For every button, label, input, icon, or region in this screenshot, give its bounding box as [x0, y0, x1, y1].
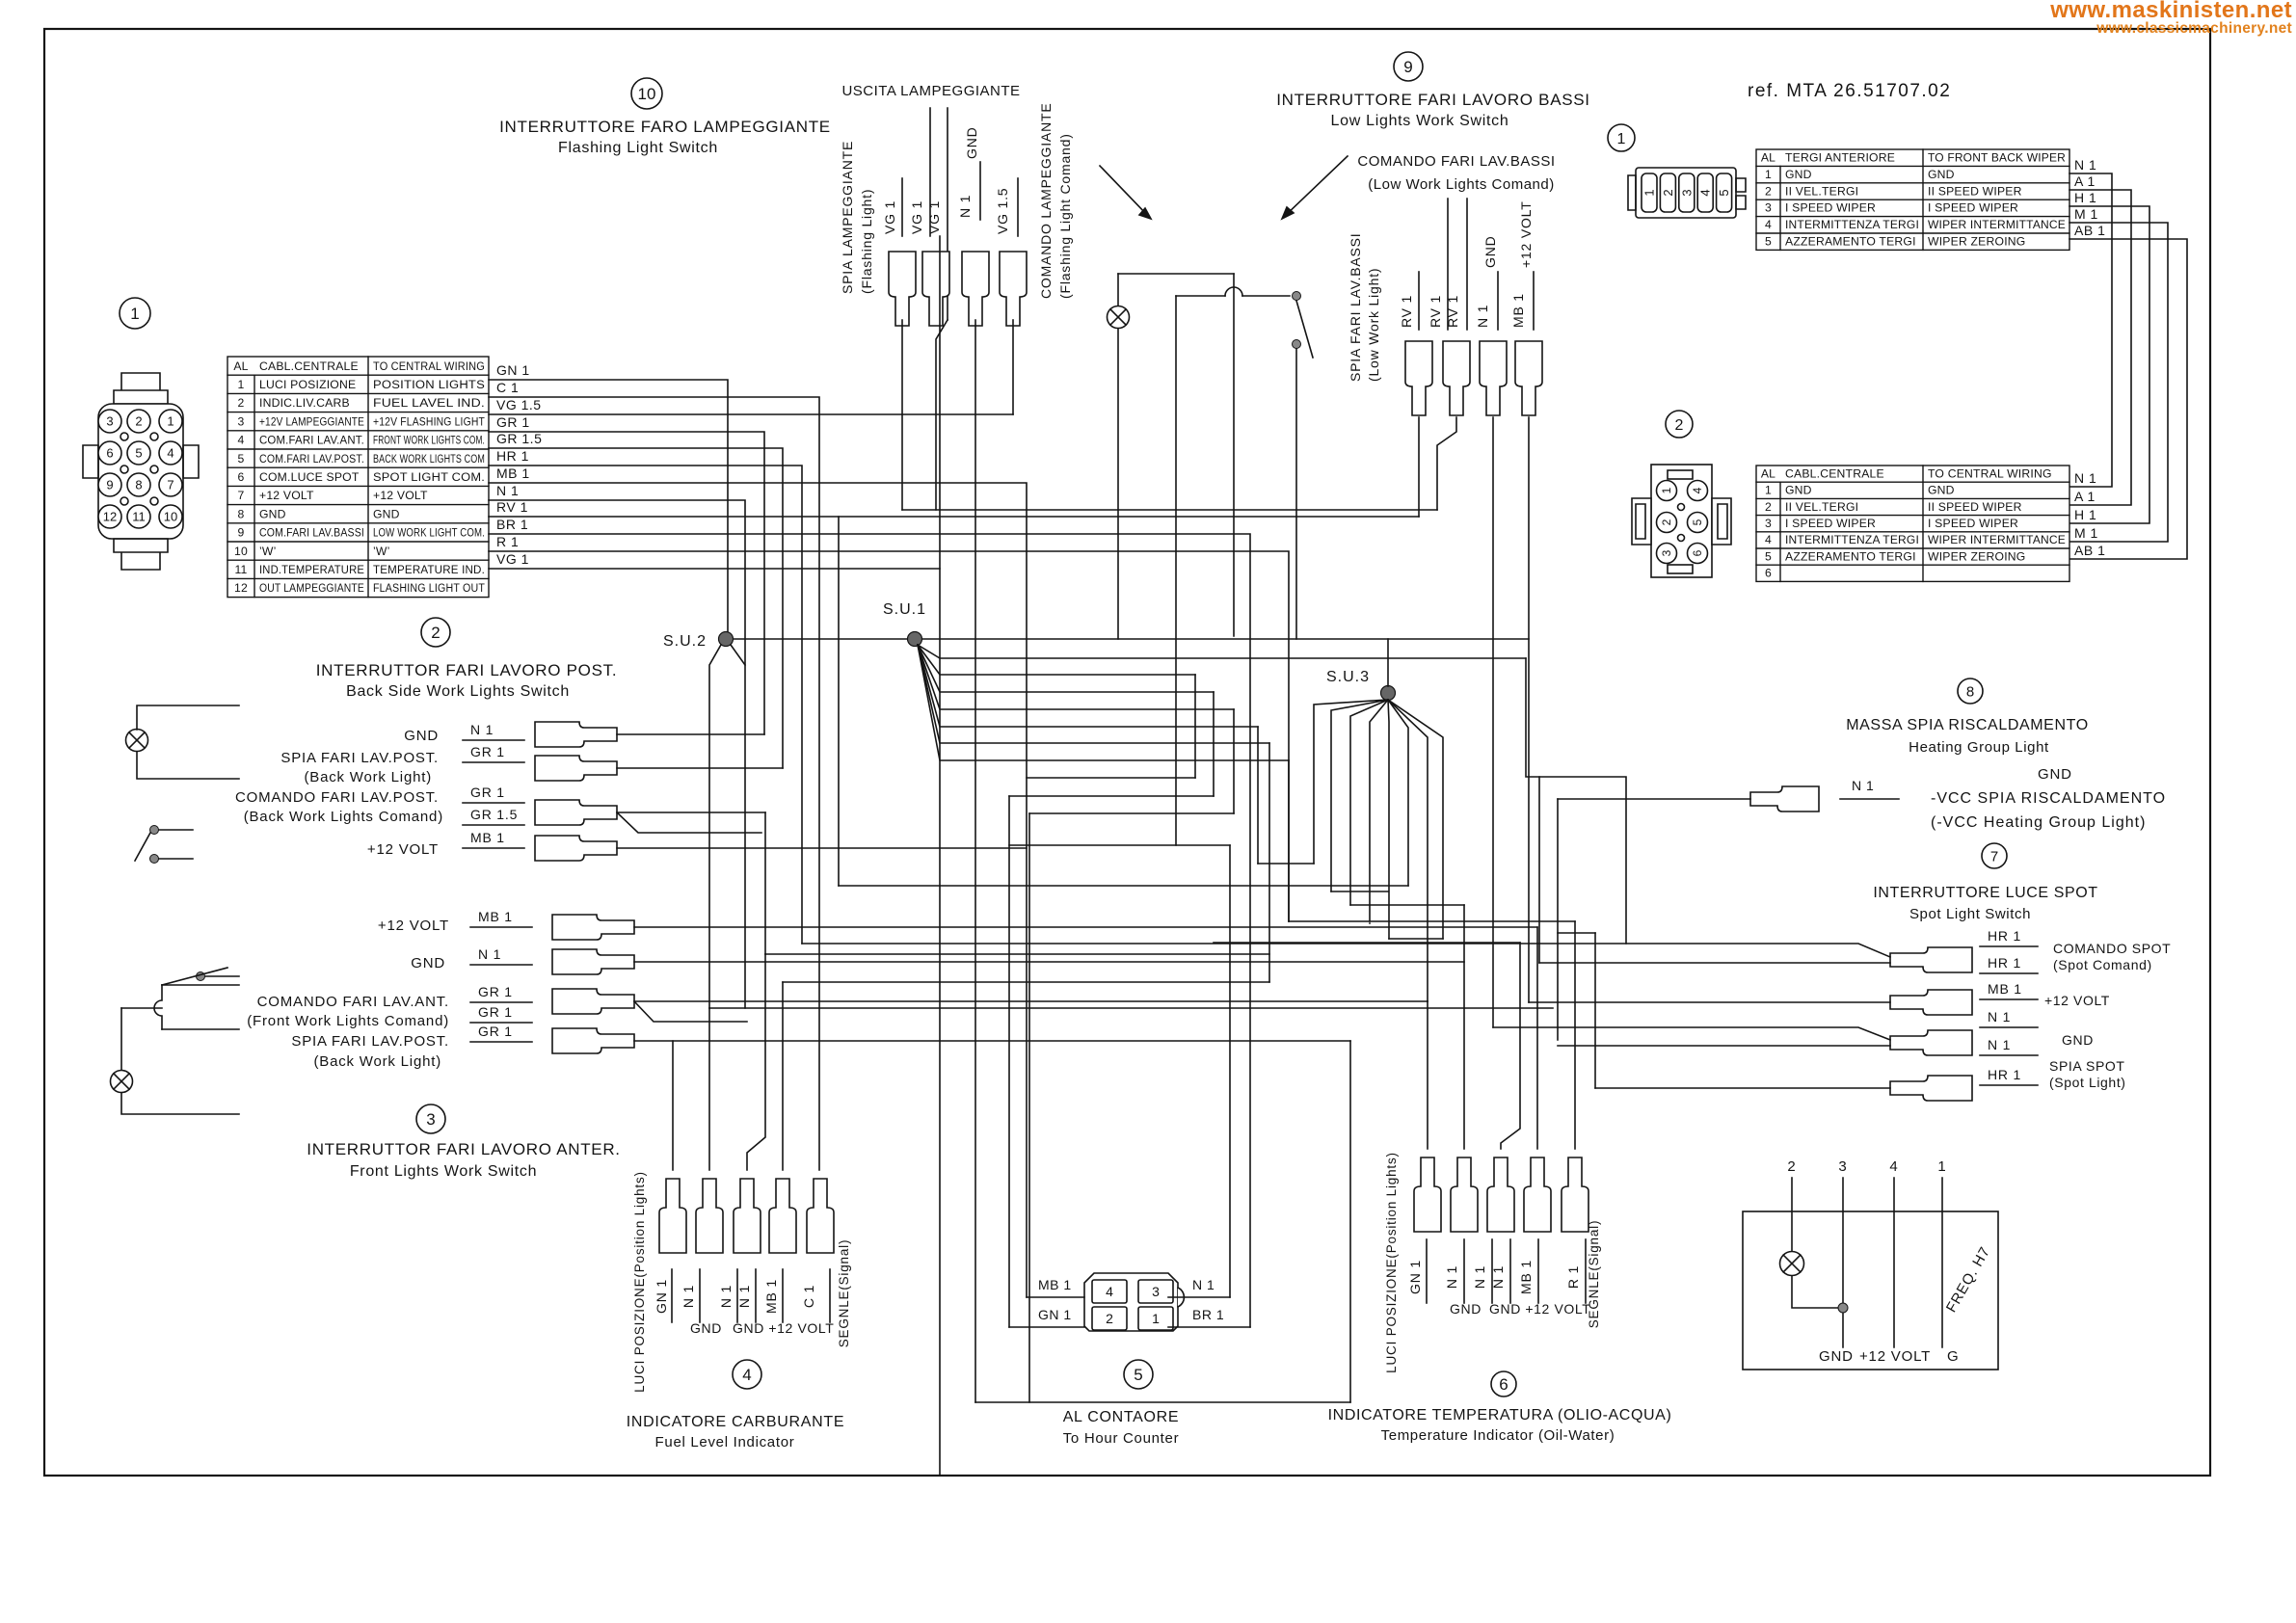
svg-text:GR 1: GR 1: [478, 1024, 513, 1039]
wire S.U.1 branch 5: [918, 645, 1258, 727]
wire lamp2 bottom: [137, 752, 239, 779]
terminal lug vg1: [922, 252, 949, 326]
underline fuel label: [755, 1269, 757, 1322]
svg-text:VG 1: VG 1: [926, 200, 942, 234]
contact lower flashing switch: [1293, 340, 1301, 349]
lug comando g3: [552, 989, 634, 1014]
svg-text:4: 4: [742, 1366, 751, 1384]
svg-text:9: 9: [238, 526, 245, 540]
svg-text:VG 1: VG 1: [909, 200, 924, 234]
svg-text:GND: GND: [1819, 1348, 1854, 1365]
svg-text:1: 1: [1765, 484, 1772, 497]
wire lamp branch down: [1233, 274, 1235, 636]
wire GN1 into counter: [1009, 1326, 1084, 1328]
svg-text:COM.LUCE SPOT: COM.LUCE SPOT: [259, 470, 360, 484]
svg-text:N 1: N 1: [1475, 305, 1490, 328]
svg-text:6: 6: [238, 470, 245, 484]
svg-text:INTERRUTTOR FARI LAVORO POST.: INTERRUTTOR FARI LAVORO POST.: [316, 661, 618, 679]
svg-text:(-VCC Heating Group Light): (-VCC Heating Group Light): [1931, 814, 2146, 831]
svg-text:HR 1: HR 1: [1988, 1067, 2021, 1082]
lug spia spot: [1890, 1076, 1972, 1101]
svg-text:5: 5: [1765, 549, 1772, 563]
lever back switch: [135, 833, 150, 861]
svg-text:4: 4: [238, 434, 245, 447]
terminal lug n1 gnd low: [1480, 341, 1507, 415]
wire 12v low long down: [1528, 417, 1530, 1002]
svg-text:R 1: R 1: [1565, 1265, 1581, 1289]
wire BR1 to hour counter: [489, 534, 1250, 1327]
wire vg15 down: [1012, 320, 1014, 414]
pin 3 connector W2: [1657, 544, 1677, 564]
underline n1: [979, 162, 981, 220]
pin 2 connector W1: [1660, 173, 1675, 212]
badge 2 right: [1666, 411, 1693, 438]
svg-text:1: 1: [1937, 1158, 1946, 1175]
svg-text:7: 7: [1990, 848, 1998, 865]
svg-text:C 1: C 1: [496, 380, 519, 395]
wire y877: [1009, 844, 1230, 846]
svg-text:TO CENTRAL WIRING: TO CENTRAL WIRING: [1928, 466, 2052, 480]
wire S.U.2 branch left: [709, 645, 721, 1008]
wire freq pin1: [1941, 1178, 1943, 1347]
junction S.U.2: [719, 632, 734, 647]
svg-text:www.classicmachinery.net: www.classicmachinery.net: [2096, 20, 2292, 37]
wire MB1 spot: [1529, 1001, 1890, 1003]
wire HR1 upper diag: [802, 944, 1890, 957]
wire GR1.5 to back comando: [489, 448, 783, 768]
underline temp label: [1537, 1239, 1539, 1303]
svg-text:GN 1: GN 1: [654, 1279, 669, 1314]
wire riser x1240: [1194, 675, 1196, 778]
svg-text:1: 1: [1642, 189, 1657, 196]
badge 1 right: [1608, 124, 1635, 151]
svg-text:TERGI ANTERIORE: TERGI ANTERIORE: [1785, 151, 1895, 165]
svg-text:GND: GND: [373, 507, 400, 520]
svg-text:SPIA SPOT: SPIA SPOT: [2049, 1058, 2125, 1074]
lug fuel 5: [807, 1179, 834, 1253]
lug temp 5: [1562, 1157, 1589, 1232]
svg-text:12: 12: [234, 581, 248, 595]
wire fuel3 jog up: [747, 954, 765, 1170]
lug temp 3: [1487, 1157, 1514, 1232]
svg-text:1: 1: [1765, 168, 1772, 181]
wire y974: [1389, 938, 1443, 940]
svg-text:GND: GND: [404, 728, 439, 744]
svg-text:AL: AL: [1761, 151, 1775, 165]
lug spia g3: [552, 1028, 634, 1053]
svg-text:IND.TEMPERATURE: IND.TEMPERATURE: [259, 563, 364, 576]
svg-text:GND: GND: [964, 126, 979, 159]
svg-text:SPIA FARI LAV.BASSI: SPIA FARI LAV.BASSI: [1348, 233, 1363, 383]
svg-text:7: 7: [238, 489, 245, 502]
underline fuel label: [782, 1269, 784, 1322]
wire comando low b: [1466, 199, 1468, 330]
svg-text:4: 4: [1765, 218, 1772, 231]
lug gnd spot: [1890, 1030, 1972, 1055]
svg-text:COMANDO FARI LAV.POST.: COMANDO FARI LAV.POST.: [235, 789, 439, 806]
svg-text:R 1: R 1: [496, 534, 519, 549]
wire fuel4 up: [782, 982, 784, 1170]
switch lever: [1296, 301, 1313, 358]
pin 5 connector W1: [1717, 173, 1732, 212]
svg-text:AB 1: AB 1: [2074, 223, 2105, 238]
svg-text:2: 2: [431, 624, 440, 642]
svg-text:N 1: N 1: [1192, 1277, 1215, 1292]
svg-text:(Low Work Light): (Low Work Light): [1366, 268, 1381, 382]
svg-text:MB 1: MB 1: [1510, 293, 1526, 328]
svg-text:FLASHING LIGHT OUT: FLASHING LIGHT OUT: [373, 581, 485, 595]
pin 12 connector X1: [98, 505, 121, 528]
svg-text:-VCC SPIA RISCALDAMENTO: -VCC SPIA RISCALDAMENTO: [1931, 790, 2166, 807]
underline vg1 a: [901, 178, 903, 236]
wire branch1 staircase: [1526, 658, 1626, 944]
svg-text:8: 8: [1966, 683, 1974, 700]
svg-text:AB 1: AB 1: [2074, 543, 2105, 558]
svg-text:ref. MTA 26.51707.02: ref. MTA 26.51707.02: [1748, 81, 1951, 101]
svg-text:INTERRUTTOR FARI LAVORO ANTER.: INTERRUTTOR FARI LAVORO ANTER.: [307, 1140, 620, 1158]
svg-text:BR 1: BR 1: [496, 517, 528, 532]
svg-text:4: 4: [1765, 533, 1772, 546]
svg-text:1: 1: [130, 305, 139, 323]
svg-text:GND: GND: [1482, 235, 1498, 268]
svg-text:N 1: N 1: [1852, 778, 1874, 793]
pin 11 connector X1: [127, 505, 150, 528]
svg-text:2: 2: [1787, 1158, 1796, 1175]
svg-text:GND: GND: [1450, 1301, 1482, 1317]
svg-text:6: 6: [106, 446, 113, 461]
svg-text:II SPEED WIPER: II SPEED WIPER: [1928, 184, 2022, 198]
wire H 1 loop: [2069, 206, 2149, 523]
svg-text:GND: GND: [690, 1320, 722, 1336]
svg-text:COM.FARI LAV.POST.: COM.FARI LAV.POST.: [259, 452, 364, 466]
svg-text:N 1: N 1: [1472, 1265, 1487, 1289]
svg-text:GN 1: GN 1: [1407, 1260, 1423, 1294]
svg-text:S.U.2: S.U.2: [663, 633, 707, 650]
lug 12v spot: [1890, 990, 1972, 1015]
wire y919: [839, 885, 1408, 887]
badge 9: [1394, 52, 1423, 81]
lamp flashing indicator: [1108, 306, 1130, 329]
lug 12v g3: [552, 915, 634, 940]
connector X1 12-pin body: [114, 373, 168, 404]
underline temp label: [1491, 1239, 1493, 1303]
underline n1 heat: [1840, 798, 1899, 800]
svg-text:LOW WORK LIGHT COM.: LOW WORK LIGHT COM.: [373, 526, 485, 540]
table connector X1 pinout: [227, 357, 489, 598]
svg-text:N 1: N 1: [681, 1285, 696, 1308]
svg-text:INDICATORE CARBURANTE: INDICATORE CARBURANTE: [627, 1414, 845, 1430]
pin 1 connector W1: [1642, 173, 1657, 212]
svg-text:USCITA LAMPEGGIANTE: USCITA LAMPEGGIANTE: [841, 83, 1020, 99]
contact front switch: [197, 972, 205, 981]
svg-text:GR 1: GR 1: [470, 744, 505, 759]
wire lamp down: [1117, 329, 1119, 639]
svg-text:6: 6: [1765, 567, 1772, 580]
svg-text:(Back Work Light): (Back Work Light): [313, 1053, 441, 1070]
svg-text:GN 1: GN 1: [1038, 1307, 1072, 1322]
svg-text:H 1: H 1: [2074, 507, 2096, 522]
pin 3 hour counter: [1138, 1280, 1173, 1303]
svg-text:FRONT WORK LIGHTS COM.: FRONT WORK LIGHTS COM.: [373, 434, 485, 447]
wire y978: [1214, 942, 1520, 944]
wire S.U.2 branch right: [731, 645, 745, 665]
svg-text:2: 2: [1765, 184, 1772, 198]
svg-text:+12V FLASHING LIGHT: +12V FLASHING LIGHT: [373, 414, 485, 428]
wire RV1 branch: [489, 517, 839, 886]
svg-text:(Spot Light): (Spot Light): [2049, 1075, 2126, 1090]
svg-text:GND: GND: [2038, 766, 2072, 783]
wire R1 branch: [489, 551, 1289, 921]
terminal lug n1 gnd: [962, 252, 989, 326]
svg-text:(Spot Comand): (Spot Comand): [2053, 957, 2152, 972]
wire N1 upper diag: [1493, 1027, 1890, 1040]
svg-text:GND +12 VOLT: GND +12 VOLT: [1489, 1301, 1590, 1317]
wire rv bus horizontal: [902, 509, 1437, 511]
wire riser x1280: [1233, 709, 1235, 813]
wire riser x1317: [1268, 743, 1270, 982]
svg-text:+12 VOLT: +12 VOLT: [1518, 200, 1534, 268]
component FREQ H7 box: [1743, 1211, 1998, 1370]
arrow to switch right: [1284, 156, 1348, 217]
wire riser GN1 counter: [1008, 796, 1010, 1327]
wire riser N1 counter: [1229, 845, 1231, 1297]
svg-text:3: 3: [1660, 549, 1673, 556]
svg-text:INTERMITTENZA TERGI: INTERMITTENZA TERGI: [1785, 533, 1919, 546]
wire heating: [1558, 798, 1750, 800]
pin 6 connector W2: [1688, 544, 1708, 564]
wire temp2 up: [1463, 905, 1465, 1149]
svg-text:LUCI POSIZIONE: LUCI POSIZIONE: [259, 378, 356, 391]
svg-text:(Flashing Light): (Flashing Light): [859, 189, 874, 294]
wire A 1 loop: [2069, 190, 2131, 505]
svg-text:+12 VOLT: +12 VOLT: [2044, 993, 2110, 1008]
svg-text:1: 1: [1660, 487, 1673, 493]
wire S.U.1 branch 6: [918, 645, 1269, 743]
svg-text:VG 1: VG 1: [496, 551, 529, 567]
svg-text:N 1: N 1: [736, 1285, 752, 1308]
pin 5 connector W2: [1688, 513, 1708, 533]
svg-text:HR 1: HR 1: [1988, 955, 2021, 971]
svg-text:G: G: [1947, 1348, 1959, 1365]
svg-text:4: 4: [1691, 487, 1704, 493]
svg-text:9: 9: [106, 478, 113, 492]
svg-text:+12V LAMPEGGIANTE: +12V LAMPEGGIANTE: [259, 414, 364, 428]
wire spia lamp down: [901, 320, 903, 510]
svg-text:MB 1: MB 1: [478, 909, 513, 924]
svg-text:VG 1.5: VG 1.5: [995, 188, 1010, 234]
svg-text:I SPEED WIPER: I SPEED WIPER: [1785, 517, 1876, 530]
svg-text:CABL.CENTRALE: CABL.CENTRALE: [259, 359, 359, 373]
wire HR1 lower: [1539, 962, 1890, 964]
svg-text:II VEL.TERGI: II VEL.TERGI: [1785, 184, 1858, 198]
svg-text:COMANDO LAMPEGGIANTE: COMANDO LAMPEGGIANTE: [1038, 103, 1054, 299]
svg-text:N 1: N 1: [1444, 1265, 1459, 1289]
wire S.U.1 branch 4: [918, 645, 1234, 709]
svg-text:’W’: ’W’: [373, 545, 390, 558]
wire N1 gnd bus: [489, 500, 745, 1008]
svg-text:COM.FARI LAV.ANT.: COM.FARI LAV.ANT.: [259, 434, 364, 447]
wire rv spia horizontal: [839, 516, 1419, 518]
badge 4: [733, 1360, 761, 1389]
wire bracket bottom stub: [162, 1028, 239, 1030]
underline fuel label: [671, 1269, 673, 1322]
svg-text:GND: GND: [2062, 1032, 2094, 1048]
svg-text:AZZERAMENTO TERGI: AZZERAMENTO TERGI: [1785, 235, 1916, 249]
lug fuel 3: [734, 1179, 761, 1253]
wire riser x1655: [1594, 933, 1596, 1088]
underline temp label: [1426, 1239, 1428, 1303]
connector W1 5-pin body: [1636, 168, 1736, 218]
svg-text:3: 3: [1765, 201, 1772, 215]
lug temp 2: [1451, 1157, 1478, 1232]
svg-text:2: 2: [135, 414, 142, 429]
wire GR1 to back spia: [489, 432, 764, 734]
svg-text:8: 8: [238, 507, 245, 520]
wire S.U.3 branch 1: [1314, 700, 1388, 864]
wire contact stub b: [159, 858, 193, 860]
wire contact down: [1295, 349, 1297, 639]
svg-text:INTERMITTENZA TERGI: INTERMITTENZA TERGI: [1785, 218, 1919, 231]
svg-text:+12 VOLT: +12 VOLT: [373, 489, 428, 502]
svg-text:TO CENTRAL WIRING: TO CENTRAL WIRING: [373, 359, 485, 373]
svg-text:WIPER ZEROING: WIPER ZEROING: [1928, 549, 2025, 563]
svg-text:2: 2: [1675, 417, 1684, 434]
svg-text:MB 1: MB 1: [1038, 1277, 1072, 1292]
pin 7 connector X1: [159, 473, 182, 496]
svg-text:RV 1: RV 1: [496, 499, 528, 515]
lug comando g2: [535, 800, 617, 825]
wire VG1.5 to flashing lug: [489, 413, 1013, 415]
svg-text:GR 1: GR 1: [470, 785, 505, 800]
svg-text:N 1: N 1: [2074, 470, 2096, 486]
pin 4 connector W2: [1688, 481, 1708, 501]
wire switch branch left: [1176, 295, 1225, 297]
svg-text:To Hour Counter: To Hour Counter: [1063, 1430, 1180, 1447]
bracket front switch: [154, 985, 162, 1029]
svg-text:GND: GND: [411, 955, 445, 971]
svg-text:SPOT LIGHT COM.: SPOT LIGHT COM.: [373, 470, 485, 484]
svg-text:INTERRUTTORE LUCE SPOT: INTERRUTTORE LUCE SPOT: [1873, 885, 2097, 901]
svg-text:3: 3: [1838, 1158, 1847, 1175]
svg-text:3: 3: [1765, 517, 1772, 530]
svg-text:GND: GND: [259, 507, 286, 520]
svg-text:I SPEED WIPER: I SPEED WIPER: [1928, 517, 2018, 530]
svg-text:2: 2: [1661, 189, 1675, 196]
wire gnd long down: [974, 320, 976, 1402]
connector W2 6-pin body: [1651, 465, 1712, 577]
svg-text:SPIA LAMPEGGIANTE: SPIA LAMPEGGIANTE: [840, 141, 855, 294]
wire temp5 up: [1574, 921, 1576, 1149]
wire rv1a down: [1418, 417, 1420, 517]
svg-text:8: 8: [135, 478, 142, 492]
svg-text:AL: AL: [233, 359, 248, 373]
svg-text:N 1: N 1: [496, 483, 519, 498]
wire VG1 branch: [489, 568, 940, 570]
wire riser x975 long: [939, 236, 941, 1475]
svg-text:Front Lights Work Switch: Front Lights Work Switch: [350, 1163, 537, 1180]
wire riser x1616: [1557, 799, 1559, 1040]
wire MB1 12v bus: [489, 483, 1027, 1297]
pin 2 connector X1: [127, 410, 150, 433]
svg-text:MB 1: MB 1: [763, 1279, 779, 1314]
svg-text:S.U.1: S.U.1: [883, 601, 926, 618]
wire y990: [765, 953, 1269, 955]
table W1 wiper front: [1756, 149, 2069, 250]
pin 1 hour counter: [1138, 1307, 1173, 1330]
wire S.U.3 branch 7: [1388, 700, 1428, 1001]
wire S.U.3 branch 3: [1350, 700, 1388, 905]
wire y968 link: [1558, 932, 1595, 934]
svg-text:+12 VOLT: +12 VOLT: [259, 489, 314, 502]
svg-text:7: 7: [167, 478, 174, 492]
underline temp label: [1585, 1239, 1587, 1303]
pin 4 connector W1: [1697, 173, 1713, 212]
svg-text:SEGNLE(Signal): SEGNLE(Signal): [837, 1239, 851, 1348]
stub: [1369, 922, 1371, 924]
svg-text:RV 1: RV 1: [1428, 295, 1443, 328]
junction freq gnd: [1838, 1303, 1848, 1313]
lug 12v g2: [535, 836, 617, 861]
arrow to switch left: [1100, 166, 1149, 217]
svg-text:FUEL LAVEL IND.: FUEL LAVEL IND.: [373, 396, 485, 410]
svg-text:2: 2: [1765, 500, 1772, 514]
wire S.U.1 branch 2: [918, 645, 1195, 675]
wire comando low a: [1447, 199, 1449, 330]
svg-text:1: 1: [167, 414, 174, 429]
svg-text:3: 3: [1152, 1284, 1160, 1299]
wire S.U.3 up to bus: [1387, 639, 1389, 686]
svg-text:TEMPERATURE IND.: TEMPERATURE IND.: [373, 563, 485, 576]
svg-text:Low Lights Work Switch: Low Lights Work Switch: [1331, 113, 1509, 129]
svg-text:A 1: A 1: [2074, 489, 2096, 504]
svg-text:OUT LAMPEGGIANTE: OUT LAMPEGGIANTE: [259, 581, 364, 595]
wire S.U.1 branch 3: [918, 645, 1214, 692]
badge 7: [1982, 843, 2007, 868]
svg-text:2: 2: [1106, 1311, 1113, 1326]
wire contact stub a: [159, 829, 193, 831]
pin 3 connector X1: [98, 410, 121, 433]
lug spia g2: [535, 756, 617, 781]
wire lamp up: [1117, 274, 1119, 306]
svg-text:5: 5: [1765, 235, 1772, 249]
wire HR1 spia: [1595, 1087, 1890, 1089]
svg-text:’W’: ’W’: [259, 545, 277, 558]
wire hook crossover: [1225, 287, 1242, 296]
svg-text:TO FRONT BACK WIPER: TO FRONT BACK WIPER: [1928, 151, 2066, 165]
wire contact stub g3: [205, 975, 239, 977]
svg-text:(Front Work Lights Comand): (Front Work Lights Comand): [247, 1013, 449, 1029]
svg-text:N 1: N 1: [470, 722, 494, 737]
svg-text:4: 4: [1106, 1284, 1113, 1299]
wire S.U.3 branch 4: [1370, 700, 1388, 921]
svg-text:3: 3: [238, 414, 245, 428]
wire N1 lower: [1558, 1045, 1890, 1047]
badge 8: [1958, 678, 1983, 704]
svg-text:4: 4: [167, 446, 174, 461]
svg-text:WIPER ZEROING: WIPER ZEROING: [1928, 235, 2025, 249]
svg-text:COMANDO FARI LAV.ANT.: COMANDO FARI LAV.ANT.: [257, 994, 449, 1010]
svg-text:10: 10: [234, 545, 248, 558]
svg-text:HR 1: HR 1: [1988, 928, 2021, 944]
wire HR1 to spot comand: [489, 466, 802, 944]
svg-text:INTERRUTTORE FARO LAMPEGGIANTE: INTERRUTTORE FARO LAMPEGGIANTE: [499, 118, 831, 136]
wire uscita 1: [929, 108, 931, 236]
terminal lug rv1 b: [1443, 341, 1470, 415]
wire S.U.3 branch 8: [1388, 700, 1443, 939]
wire fuel1 up: [672, 1041, 674, 1170]
svg-text:BR 1: BR 1: [1192, 1307, 1224, 1322]
svg-text:GND: GND: [1928, 168, 1955, 181]
